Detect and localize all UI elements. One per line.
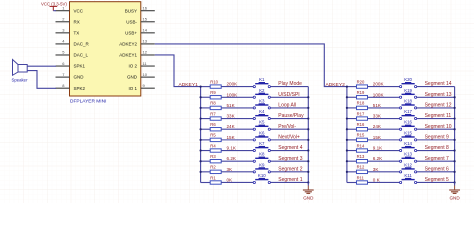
svg-text:K2: K2 — [259, 88, 265, 93]
svg-text:Next/Vol+: Next/Vol+ — [278, 134, 300, 140]
svg-text:9.1K: 9.1K — [373, 146, 383, 151]
svg-text:K8: K8 — [259, 152, 265, 157]
svg-text:R1: R1 — [210, 175, 216, 180]
svg-text:3K: 3K — [373, 167, 380, 172]
svg-text:K18: K18 — [404, 98, 412, 103]
svg-text:BUSY: BUSY — [125, 8, 137, 13]
svg-text:GND: GND — [74, 75, 85, 80]
svg-text:R8: R8 — [210, 101, 216, 106]
svg-text:24K: 24K — [373, 124, 382, 129]
svg-text:IO 1: IO 1 — [128, 86, 137, 91]
svg-text:6.2K: 6.2K — [227, 156, 237, 161]
svg-text:VCC: VCC — [74, 8, 84, 13]
svg-text:Segment 9: Segment 9 — [425, 134, 449, 140]
svg-text:Segment 13: Segment 13 — [425, 92, 452, 98]
svg-text:U/SD/SPI: U/SD/SPI — [278, 92, 299, 98]
svg-text:K1: K1 — [259, 77, 265, 82]
svg-text:6.2K: 6.2K — [373, 156, 383, 161]
svg-text:GND: GND — [127, 75, 138, 80]
svg-text:Loop All: Loop All — [278, 103, 296, 109]
svg-text:ADKEY1: ADKEY1 — [179, 82, 199, 88]
svg-text:R4: R4 — [210, 143, 216, 148]
svg-text:Segment 12: Segment 12 — [425, 103, 452, 109]
svg-text:Segment 4: Segment 4 — [278, 145, 302, 151]
svg-text:15K: 15K — [373, 135, 382, 140]
svg-text:24K: 24K — [227, 124, 236, 129]
svg-text:R2: R2 — [210, 165, 216, 170]
svg-text:K12: K12 — [404, 162, 412, 167]
svg-text:100K: 100K — [227, 92, 239, 97]
svg-text:R9: R9 — [210, 90, 216, 95]
svg-text:DAC_R: DAC_R — [74, 42, 90, 47]
svg-text:K3: K3 — [259, 98, 265, 103]
svg-text:33K: 33K — [227, 114, 236, 119]
svg-text:200K: 200K — [227, 82, 239, 87]
svg-text:USB-: USB- — [126, 19, 137, 24]
svg-text:R18: R18 — [357, 101, 365, 106]
svg-text:Segment 6: Segment 6 — [425, 166, 449, 172]
svg-text:0K: 0K — [227, 177, 234, 182]
svg-text:R12: R12 — [357, 165, 365, 170]
svg-text:SPK2: SPK2 — [74, 86, 86, 91]
svg-text:14: 14 — [143, 28, 148, 33]
svg-text:K13: K13 — [404, 152, 412, 157]
svg-text:DFPLAYER MINI: DFPLAYER MINI — [70, 98, 106, 104]
svg-text:33K: 33K — [373, 114, 382, 119]
svg-text:K9: K9 — [259, 162, 265, 167]
svg-text:K19: K19 — [404, 88, 412, 93]
svg-text:Segment 7: Segment 7 — [425, 156, 449, 162]
svg-text:51K: 51K — [227, 103, 236, 108]
svg-text:K10: K10 — [258, 173, 266, 178]
svg-text:R5: R5 — [210, 133, 216, 138]
svg-text:R20: R20 — [357, 79, 365, 84]
svg-text:K16: K16 — [404, 120, 412, 125]
svg-text:R16: R16 — [357, 122, 365, 127]
svg-text:R15: R15 — [357, 133, 365, 138]
svg-text:R13: R13 — [357, 154, 365, 159]
svg-text:VCC (3.3-5V): VCC (3.3-5V) — [41, 1, 67, 6]
svg-text:K7: K7 — [259, 141, 265, 146]
svg-text:ADKEY1: ADKEY1 — [119, 53, 137, 58]
svg-text:K6: K6 — [259, 130, 265, 135]
svg-text:200K: 200K — [373, 82, 385, 87]
svg-text:TX: TX — [74, 30, 80, 35]
svg-text:Pre/Vol-: Pre/Vol- — [278, 124, 296, 130]
svg-text:GND: GND — [449, 195, 460, 200]
svg-text:K4: K4 — [259, 109, 265, 114]
svg-text:16: 16 — [143, 5, 148, 10]
svg-text:ADKEY2: ADKEY2 — [119, 42, 137, 47]
svg-text:Pause/Play: Pause/Play — [278, 113, 304, 119]
svg-text:0 K: 0 K — [373, 177, 381, 182]
svg-text:Segment 14: Segment 14 — [425, 81, 452, 87]
svg-text:K14: K14 — [404, 141, 412, 146]
svg-text:SPK1: SPK1 — [74, 64, 86, 69]
svg-text:R14: R14 — [357, 143, 365, 148]
svg-text:Segment 5: Segment 5 — [425, 177, 449, 183]
svg-text:K17: K17 — [404, 109, 412, 114]
svg-text:3K: 3K — [227, 167, 234, 172]
svg-text:Segment 8: Segment 8 — [425, 145, 449, 151]
svg-text:100K: 100K — [373, 92, 385, 97]
svg-text:Segment 10: Segment 10 — [425, 124, 452, 130]
svg-text:USB+: USB+ — [125, 30, 137, 35]
svg-text:R7: R7 — [210, 111, 216, 116]
svg-text:DAC_L: DAC_L — [74, 53, 89, 58]
svg-text:R6: R6 — [210, 122, 216, 127]
svg-text:10: 10 — [143, 72, 148, 77]
svg-text:13: 13 — [143, 39, 148, 44]
svg-text:K15: K15 — [404, 130, 412, 135]
svg-text:K11: K11 — [404, 173, 412, 178]
svg-text:51K: 51K — [373, 103, 382, 108]
svg-text:Play Mode: Play Mode — [278, 81, 302, 87]
svg-text:K5: K5 — [259, 120, 265, 125]
svg-text:9.1K: 9.1K — [227, 146, 237, 151]
svg-text:R10: R10 — [210, 79, 218, 84]
svg-text:IO 2: IO 2 — [128, 64, 137, 69]
svg-text:Segment 1: Segment 1 — [278, 177, 302, 183]
svg-text:Segment 3: Segment 3 — [278, 156, 302, 162]
svg-text:12: 12 — [143, 50, 148, 55]
svg-text:Segment 2: Segment 2 — [278, 166, 302, 172]
svg-text:Speaker: Speaker — [12, 77, 29, 82]
svg-text:R17: R17 — [357, 111, 365, 116]
svg-text:RX: RX — [74, 19, 80, 24]
svg-text:ADKEY2: ADKEY2 — [326, 82, 346, 88]
svg-text:R3: R3 — [210, 154, 216, 159]
svg-text:R19: R19 — [357, 90, 365, 95]
svg-text:15: 15 — [143, 16, 148, 21]
svg-text:R11: R11 — [357, 175, 365, 180]
svg-text:GND: GND — [303, 195, 314, 200]
svg-text:K20: K20 — [404, 77, 412, 82]
svg-text:15K: 15K — [227, 135, 236, 140]
svg-text:Segment 11: Segment 11 — [425, 113, 452, 119]
